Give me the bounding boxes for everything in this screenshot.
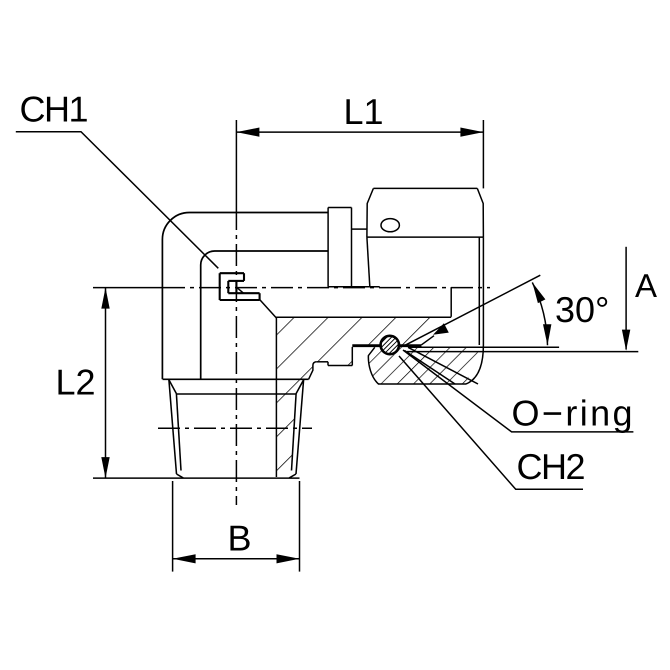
30deg horizontal reference <box>408 346 559 348</box>
flange top edge <box>276 316 451 318</box>
right root <box>292 394 297 471</box>
svg-text:CH2: CH2 <box>517 446 585 487</box>
arrow tail to seat <box>422 336 435 345</box>
vertical centerline <box>235 120 237 208</box>
left root <box>176 394 181 471</box>
body section hatch <box>276 317 451 477</box>
thread centerline cross <box>158 427 312 429</box>
cone seat line + 30deg dimension line <box>405 275 540 345</box>
washer <box>327 208 329 287</box>
svg-text:L2: L2 <box>56 361 96 402</box>
left crest <box>169 380 177 474</box>
thread second shoulder <box>176 393 296 395</box>
A dimension <box>625 247 627 350</box>
nut lower sides <box>367 237 370 286</box>
bore cut line <box>275 318 277 477</box>
left chamfer <box>169 380 177 394</box>
svg-text:O−ring: O−ring <box>512 393 635 434</box>
L1 dimension <box>236 131 483 133</box>
elbow outer contour <box>162 212 328 379</box>
bottom face + L2/B extension <box>93 477 300 479</box>
svg-text:B: B <box>228 517 252 558</box>
neck step <box>352 228 367 230</box>
svg-text:30°: 30° <box>555 289 609 330</box>
horizontal centerline <box>93 287 163 289</box>
right crest <box>296 380 304 474</box>
nut flare lines <box>408 347 478 384</box>
nut oval detent <box>381 219 399 232</box>
arrow on cone line <box>433 323 449 335</box>
port end face <box>450 287 452 317</box>
thread top shoulder <box>163 378 309 380</box>
O-ring leader <box>403 350 633 432</box>
cone apex diagonal <box>237 287 244 293</box>
nut section hatch <box>368 347 480 384</box>
30deg arc <box>532 282 547 345</box>
CH1 leader <box>16 132 219 269</box>
svg-text:A: A <box>635 267 657 304</box>
B dimension <box>173 558 300 560</box>
nut lower-left chamfer+corner <box>368 347 378 384</box>
retaining ring section <box>220 272 244 274</box>
elbow inner contour <box>201 251 328 379</box>
nut outline <box>367 188 374 237</box>
CH2 leader <box>399 356 583 489</box>
bottom chamfers <box>177 474 184 478</box>
chamfer to flange <box>260 300 277 319</box>
o-ring seat thick line <box>352 344 421 347</box>
svg-text:L1: L1 <box>344 91 384 132</box>
right chamfer <box>296 380 304 394</box>
L2 dimension <box>105 288 107 479</box>
svg-text:CH1: CH1 <box>20 89 88 130</box>
step down <box>351 347 353 366</box>
o-ring <box>381 336 399 354</box>
